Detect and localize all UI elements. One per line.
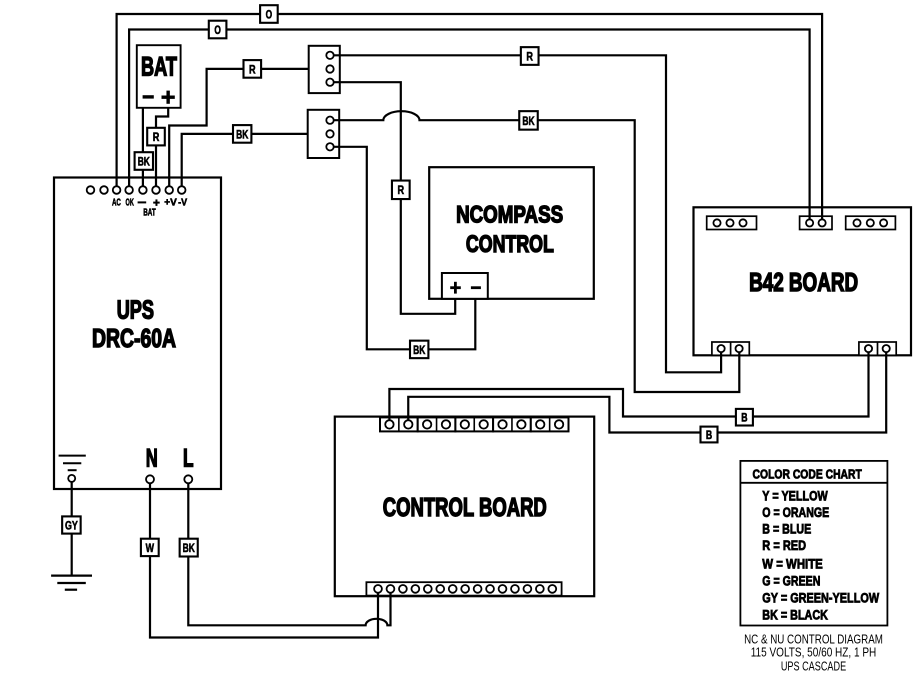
svg-text:O: O: [214, 23, 221, 37]
wire: N terminal to control board bottom pin 1 (white): [150, 483, 378, 637]
B42 bottom-left pins: [718, 345, 743, 352]
svg-text:OK: OK: [126, 198, 135, 209]
COLOR CODE CHART box: [740, 461, 887, 626]
svg-text:BAT: BAT: [141, 52, 177, 82]
wire label R (red, vertical to NCOMPASS plus): [392, 181, 410, 200]
B42 top-left connector: [707, 216, 757, 229]
CONTROL BOARD top terminal strip: [380, 417, 569, 431]
L terminal circle: [184, 475, 192, 483]
svg-text:CONTROL BOARD: CONTROL BOARD: [383, 494, 547, 522]
svg-text:BK: BK: [413, 343, 425, 357]
svg-text:BK: BK: [236, 127, 248, 141]
svg-text:NC & NU CONTROL DIAGRAM: NC & NU CONTROL DIAGRAM: [744, 633, 883, 647]
B42 top-middle connector: [800, 216, 832, 229]
BAT minus symbol: [143, 95, 154, 98]
terminal label minus: [138, 201, 147, 203]
wire: block J1 bottom pin to NCOMPASS plus (red): [330, 82, 455, 314]
svg-text:R: R: [526, 49, 533, 63]
svg-text:AC: AC: [112, 198, 121, 209]
svg-text:B = BLUE: B = BLUE: [762, 522, 811, 537]
wire: block J2 bottom pin to NCOMPASS minus (black): [330, 147, 475, 349]
wire label BK (black, NCOMPASS minus wire): [410, 341, 428, 359]
block J1 pins: [326, 52, 333, 86]
CONTROL BOARD bottom terminal strip: [366, 582, 561, 595]
svg-text:CONTROL: CONTROL: [466, 231, 554, 258]
wire label R (red, BAT plus wire): [147, 128, 165, 146]
BAT plus symbol: [162, 91, 175, 104]
terminal label plus: [153, 199, 160, 206]
B42 top-right pins: [853, 219, 887, 226]
B42 top-middle pins: [806, 219, 826, 226]
wire label B (blue, B42 to control board 2): [701, 427, 718, 443]
svg-text:BK = BLACK: BK = BLACK: [762, 607, 828, 622]
svg-text:-V: -V: [178, 198, 187, 209]
control board bottom strip pins: [374, 585, 556, 593]
svg-text:G = GREEN: G = GREEN: [762, 573, 820, 588]
wire: L terminal to control board bottom pin 2, hop over vertical (black): [188, 483, 390, 625]
wire label B (blue, B42 to control board 1): [736, 409, 753, 426]
svg-text:UPS CASCADE: UPS CASCADE: [781, 660, 846, 674]
svg-text:BK: BK: [183, 541, 195, 555]
wire label R (red, J1 top to B42): [521, 47, 539, 65]
chassis ground symbol (inside UPS): [59, 456, 86, 471]
connector block J1 (upper 3-pin): [309, 46, 340, 93]
UPS terminal labels: [112, 198, 187, 209]
svg-text:N: N: [146, 444, 158, 472]
wire: B42 bottom-right pin 2 to control board terminal 2 (blue): [408, 352, 886, 433]
svg-text:BAT: BAT: [143, 208, 156, 219]
NCOMPASS plus terminal symbol: [450, 282, 461, 294]
wire: ground terminal to earth ground (green-yellow): [71, 482, 73, 576]
UPS DRC-60A box: [54, 178, 221, 490]
B42 top-right connector: [846, 216, 896, 229]
wire label GY (green-yellow ground wire): [62, 516, 81, 533]
NCOMPASS minus terminal symbol: [471, 286, 481, 289]
wire: OK terminal to B42 top-middle pin 1 (orange): [129, 30, 810, 220]
wire label BK (black, -V wire): [233, 125, 251, 143]
wire label W (white, N wire): [141, 539, 159, 556]
svg-text:GY = GREEN-YELLOW: GY = GREEN-YELLOW: [762, 590, 879, 605]
svg-text:UPS: UPS: [117, 296, 154, 324]
wire: block J1 top pin to B42 bottom-left pin 1 (red): [330, 55, 721, 372]
BAT box: [137, 45, 181, 108]
wire: -V terminal to block J2 middle (black): [182, 134, 308, 186]
svg-text:Y = YELLOW: Y = YELLOW: [762, 489, 827, 504]
svg-text:DRC-60A: DRC-60A: [92, 325, 176, 353]
svg-text:B: B: [741, 411, 747, 425]
footer caption: [744, 633, 883, 674]
wire: AC terminal to B42 top-middle pin 2 (orange): [117, 14, 823, 219]
connector block J2 (lower 3-pin): [308, 110, 340, 158]
svg-text:R: R: [398, 183, 405, 197]
block J2 pins: [326, 117, 333, 151]
B42 BOARD box: [694, 207, 912, 355]
svg-text:NCOMPASS: NCOMPASS: [456, 201, 563, 228]
svg-text:R: R: [249, 62, 256, 76]
svg-text:115 VOLTS, 50/60 HZ, 1 PH: 115 VOLTS, 50/60 HZ, 1 PH: [751, 646, 877, 660]
wire label BK (black, J2 top to B42): [519, 111, 538, 129]
wire: block J2 top pin to B42 bottom-left pin 2, hop over vertical (black): [330, 111, 739, 392]
wire: minus terminal to BAT minus (black): [142, 108, 144, 187]
NCOMPASS CONTROL box: [429, 167, 594, 299]
B42 top-left pins: [713, 219, 746, 226]
svg-text:W: W: [146, 541, 155, 555]
svg-text:GY: GY: [65, 518, 78, 532]
svg-text:W = WHITE: W = WHITE: [762, 556, 823, 571]
B42 bottom-right connector: [859, 342, 896, 355]
svg-text:R = RED: R = RED: [762, 538, 806, 553]
wire: +V terminal to block J1 middle (red): [169, 69, 309, 186]
NCOMPASS +/- terminal box: [442, 273, 488, 299]
wire label R (red, +V wire): [244, 60, 262, 78]
CONTROL BOARD box: [335, 417, 594, 597]
svg-text:R: R: [153, 130, 160, 144]
N terminal circle: [146, 475, 154, 483]
wire label O (orange, OK wire): [209, 21, 227, 39]
svg-text:BK: BK: [522, 114, 534, 128]
svg-text:B42 BOARD: B42 BOARD: [749, 269, 858, 297]
UPS terminal circles: [87, 186, 186, 194]
control board top strip pins: [385, 420, 563, 428]
svg-text:BK: BK: [138, 154, 150, 168]
wire label O (orange, AC wire): [260, 5, 278, 23]
svg-text:B: B: [706, 428, 712, 442]
B42 bottom-left connector: [712, 342, 749, 355]
B42 bottom-right pins: [865, 345, 890, 352]
wire: plus terminal to BAT plus (red): [156, 108, 168, 187]
svg-text:O: O: [266, 7, 273, 21]
wire: B42 bottom-right pin 1 to control board terminal 1 (blue): [389, 352, 868, 421]
UPS ground terminal circle: [68, 475, 75, 482]
wire label BK (black, BAT minus wire): [135, 152, 153, 170]
svg-text:COLOR CODE CHART: COLOR CODE CHART: [753, 467, 862, 482]
svg-text:O = ORANGE: O = ORANGE: [762, 505, 829, 520]
svg-text:L: L: [183, 444, 194, 472]
earth ground symbol (bottom): [51, 576, 92, 590]
svg-text:+V: +V: [164, 198, 177, 209]
wire label BK (black, L wire): [180, 539, 198, 557]
